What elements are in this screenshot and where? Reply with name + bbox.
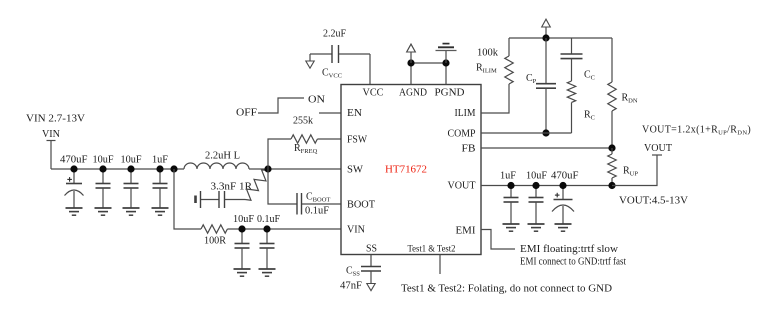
wire COMP [481,132,572,134]
junction input rail CIN1 [70,165,77,172]
ground CVIN1 [234,269,251,276]
svg-text:VIN: VIN [42,129,60,140]
junction input rail CIN4 [156,165,163,172]
wire ILIM [481,84,509,113]
svg-text:FB: FB [462,144,476,155]
resistor 100R [201,225,227,247]
capacitor CVIN2 0.1uF [260,229,275,269]
junction AGND [407,59,414,66]
wire AGND stub [410,63,412,85]
capacitor COUT1 1uF [504,186,519,225]
svg-text:VOUT: VOUT [644,143,672,154]
svg-text:VIN: VIN [347,225,365,236]
capacitor snubber 3.3nF [196,182,253,209]
svg-text:EMI floating:trtf slow: EMI floating:trtf slow [520,244,619,255]
svg-text:SW: SW [347,165,364,176]
wire inductor to SW node [249,168,341,170]
svg-text:VIN 2.7-13V: VIN 2.7-13V [26,114,86,125]
svg-text:EN: EN [347,108,362,119]
junction VOUT rail RUP junction [608,182,615,189]
resistor RILIM 100k [476,38,513,84]
wire AGND-PGND link [411,62,446,64]
svg-text:3.3nF 1R: 3.3nF 1R [211,182,253,193]
capacitor CC [561,38,596,82]
capacitor CSS 47nF [340,255,381,292]
wire VOUT rail [481,185,612,187]
svg-text:470uF: 470uF [551,171,579,182]
svg-text:EMI: EMI [456,226,476,237]
node VOUT output terminal [612,143,672,186]
wire FB [481,147,612,149]
junction FB node [608,144,615,151]
svg-text:FSW: FSW [347,135,368,146]
svg-text:Test1 & Test2: Folating, do no: Test1 & Test2: Folating, do not connect … [401,284,612,295]
svg-text:10uF: 10uF [526,171,547,182]
svg-text:OFF: OFF [236,108,257,119]
capacitor CVIN1 10uF [235,229,250,269]
svg-text:10uF: 10uF [93,155,114,166]
svg-text:1uF: 1uF [500,171,516,182]
svg-text:470uF: 470uF [60,155,88,166]
junction top rail [542,34,549,41]
ground COUT1 [503,224,520,231]
capacitor CP [526,38,556,133]
svg-text:SS: SS [366,244,377,255]
ground arrow CVCC [306,54,314,68]
inductor L 2.2uH [184,151,249,170]
wire Test1 & Test2 stub [439,255,441,275]
ground CIN1 [66,208,83,215]
svg-text:VOUT:4.5-13V: VOUT:4.5-13V [619,196,689,207]
ground CIN3 [123,208,140,215]
junction VOUT rail COUT2 [532,182,539,189]
junction SW node [264,165,271,172]
svg-text:2.2uH L: 2.2uH L [205,151,240,162]
svg-text:10uF: 10uF [233,214,254,225]
ground COUT3 [555,224,572,231]
svg-text:COMP: COMP [448,129,476,140]
junction VOUT rail COUT3 [559,182,566,189]
wire compensation top rail [509,37,612,39]
wire rail branch down to VIN row [174,169,201,229]
polarized capacitor COUT3 470uF [552,186,574,225]
capacitor CVCC 2.2uF [310,29,370,85]
ground PGND inverted earth [436,44,457,63]
capacitor CIN3 10uF [124,169,139,208]
junction input rail CIN3 [127,165,134,172]
svg-text:1uF: 1uF [152,155,168,166]
ground COUT2 [528,224,545,231]
switch ON/OFF [236,95,325,119]
svg-text:0.1uF: 0.1uF [257,214,280,225]
resistor RFREQ 255k [268,116,341,170]
resistor snubber 1R diagonal [245,170,268,201]
svg-text:ON: ON [308,95,325,106]
power arrow AGND [407,44,416,63]
svg-text:BOOT: BOOT [347,200,375,211]
ground CIN4 [152,208,169,215]
wire input rail [51,168,184,170]
svg-text:HT71672: HT71672 [385,165,427,176]
svg-text:VOUT: VOUT [448,181,476,192]
wire PGND stub [445,63,447,85]
resistor RC [567,81,595,133]
junction input rail CIN2 [99,165,106,172]
resistor RUP [608,148,639,186]
junction VIN row CVIN2 [263,225,270,232]
wire VIN row to IC [227,228,341,230]
svg-text:VCC: VCC [363,88,384,99]
svg-text:EMI connect to GND:trtf fast: EMI connect to GND:trtf fast [520,257,626,268]
svg-text:AGND: AGND [399,88,427,99]
junction COMP node [542,129,549,136]
svg-text:10uF: 10uF [121,155,142,166]
ground arrow CSS [367,284,375,291]
svg-text:100k: 100k [477,48,498,59]
junction VIN row CVIN1 [238,225,245,232]
junction PGND [442,59,449,66]
svg-text:ILIM: ILIM [455,108,476,119]
svg-text:255k: 255k [293,116,313,127]
svg-text:Test1 & Test2: Test1 & Test2 [408,245,456,255]
op-amp U1 HT71672 IC body [341,85,481,255]
capacitor CIN2 10uF [96,169,111,208]
svg-text:2.2uF: 2.2uF [323,29,346,40]
ground CIN2 [95,208,112,215]
ground CVIN2 [259,269,276,276]
svg-text:100R: 100R [204,236,226,247]
wire EMI [481,230,515,250]
node VIN input terminal [26,114,86,170]
capacitor CIN4 1uF [153,169,168,208]
svg-text:VOUT=1.2x(1+RUP/RDN): VOUT=1.2x(1+RUP/RDN) [642,125,751,137]
junction input rail branch to VIN pin [170,165,177,172]
junction VOUT rail COUT1 [507,182,514,189]
power arrow top rail [542,19,551,38]
svg-text:47nF: 47nF [340,281,362,292]
svg-text:0.1uF: 0.1uF [305,206,329,217]
svg-text:PGND: PGND [435,88,465,99]
polarized capacitor CIN1 470uF [65,169,84,208]
wire EN stub [319,112,341,114]
resistor RDN [608,38,638,148]
capacitor COUT2 10uF [529,186,544,225]
capacitor CBOOT 0.1uF [268,169,341,217]
